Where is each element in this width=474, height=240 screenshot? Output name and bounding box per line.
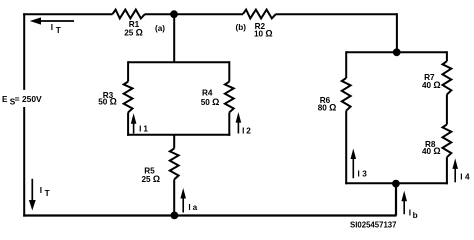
svg-text:10 Ω: 10 Ω bbox=[254, 29, 273, 39]
svg-text:a: a bbox=[193, 203, 198, 212]
svg-text:SI025457137: SI025457137 bbox=[350, 221, 397, 230]
svg-text:E: E bbox=[2, 95, 8, 104]
svg-text:2: 2 bbox=[246, 127, 251, 136]
svg-text:(a): (a) bbox=[155, 24, 165, 33]
svg-text:b: b bbox=[413, 211, 418, 220]
current arrow I4 bbox=[452, 158, 470, 182]
wire R5 to bottom bbox=[173, 179, 175, 215]
svg-text:25 Ω: 25 Ω bbox=[141, 174, 160, 184]
wire left vertical lower bbox=[23, 107, 25, 217]
wire top-left segment bbox=[23, 13, 112, 15]
parallel box right wire upper bbox=[228, 61, 230, 81]
wire right loop right upper bbox=[446, 51, 448, 61]
current arrow IT top (pointing left) bbox=[30, 17, 74, 35]
svg-text:I: I bbox=[51, 23, 53, 32]
resistor R5 25 ohm bbox=[141, 149, 178, 185]
svg-text:T: T bbox=[45, 189, 50, 198]
wire right loop bottom bbox=[345, 182, 448, 184]
svg-text:I: I bbox=[460, 172, 462, 181]
svg-text:4: 4 bbox=[465, 172, 470, 181]
svg-text:25 Ω: 25 Ω bbox=[124, 27, 143, 37]
junction dot bottom of right loop bbox=[392, 180, 400, 188]
wire bottom stub from right loop bbox=[395, 183, 397, 215]
junction dot top of right loop bbox=[393, 48, 401, 56]
wire right loop right lower bbox=[446, 157, 448, 184]
wire right loop right middle bbox=[446, 95, 448, 125]
wire right loop left upper bbox=[345, 51, 347, 78]
svg-text:80 Ω: 80 Ω bbox=[318, 102, 337, 112]
svg-text:40 Ω: 40 Ω bbox=[422, 146, 441, 156]
svg-text:3: 3 bbox=[362, 170, 367, 179]
svg-text:50 Ω: 50 Ω bbox=[201, 97, 220, 107]
svg-text:I: I bbox=[409, 208, 411, 217]
svg-text:(b): (b) bbox=[236, 23, 247, 32]
parallel box top wire bbox=[128, 61, 229, 63]
wire bottom main bbox=[23, 214, 396, 216]
svg-text:40 Ω: 40 Ω bbox=[422, 80, 441, 90]
current arrow Ia bbox=[180, 188, 197, 213]
resistor R8 40 ohm bbox=[422, 124, 451, 157]
junction dot at Ia node bbox=[171, 212, 179, 220]
resistor R1 25 ohm bbox=[113, 10, 145, 38]
parallel box right wire lower bbox=[228, 112, 230, 135]
wire right feed vertical bbox=[396, 13, 398, 52]
svg-text:I: I bbox=[358, 170, 360, 179]
current arrow IT bottom (pointing down) bbox=[29, 179, 50, 211]
resistor R2 10 ohm bbox=[243, 10, 276, 39]
node a (junction dot + label) bbox=[155, 10, 178, 33]
wire box bottom to R5 bbox=[173, 135, 175, 149]
resistor R4 50 ohm bbox=[201, 82, 234, 113]
svg-text:I: I bbox=[188, 203, 190, 212]
voltage source ES = 250V bbox=[2, 95, 42, 107]
svg-text:T: T bbox=[56, 26, 61, 35]
svg-text:I: I bbox=[40, 186, 42, 195]
wire node a to box top bbox=[173, 14, 175, 62]
wire top-right segment bbox=[276, 13, 397, 15]
svg-text:50 Ω: 50 Ω bbox=[98, 97, 117, 107]
wire right loop top bbox=[346, 51, 447, 53]
current arrow I1 bbox=[131, 113, 149, 133]
resistor R3 50 ohm bbox=[98, 82, 132, 113]
resistor R6 80 ohm bbox=[318, 78, 351, 112]
parallel box left wire upper bbox=[127, 61, 129, 81]
wire between R1 and R2 bbox=[145, 13, 243, 15]
svg-text:I: I bbox=[139, 125, 141, 134]
parallel box left wire lower bbox=[127, 112, 129, 135]
wire right loop left lower bbox=[345, 111, 347, 185]
svg-text:I: I bbox=[242, 127, 244, 136]
svg-text:= 250V: = 250V bbox=[15, 95, 43, 104]
wire left vertical upper bbox=[23, 13, 25, 90]
parallel box bottom wire bbox=[127, 134, 230, 136]
svg-text:1: 1 bbox=[143, 125, 148, 134]
current arrow Ib bbox=[401, 191, 417, 221]
current arrow I2 bbox=[236, 112, 252, 135]
resistor R7 40 ohm bbox=[422, 61, 451, 94]
current arrow I3 bbox=[351, 149, 368, 179]
